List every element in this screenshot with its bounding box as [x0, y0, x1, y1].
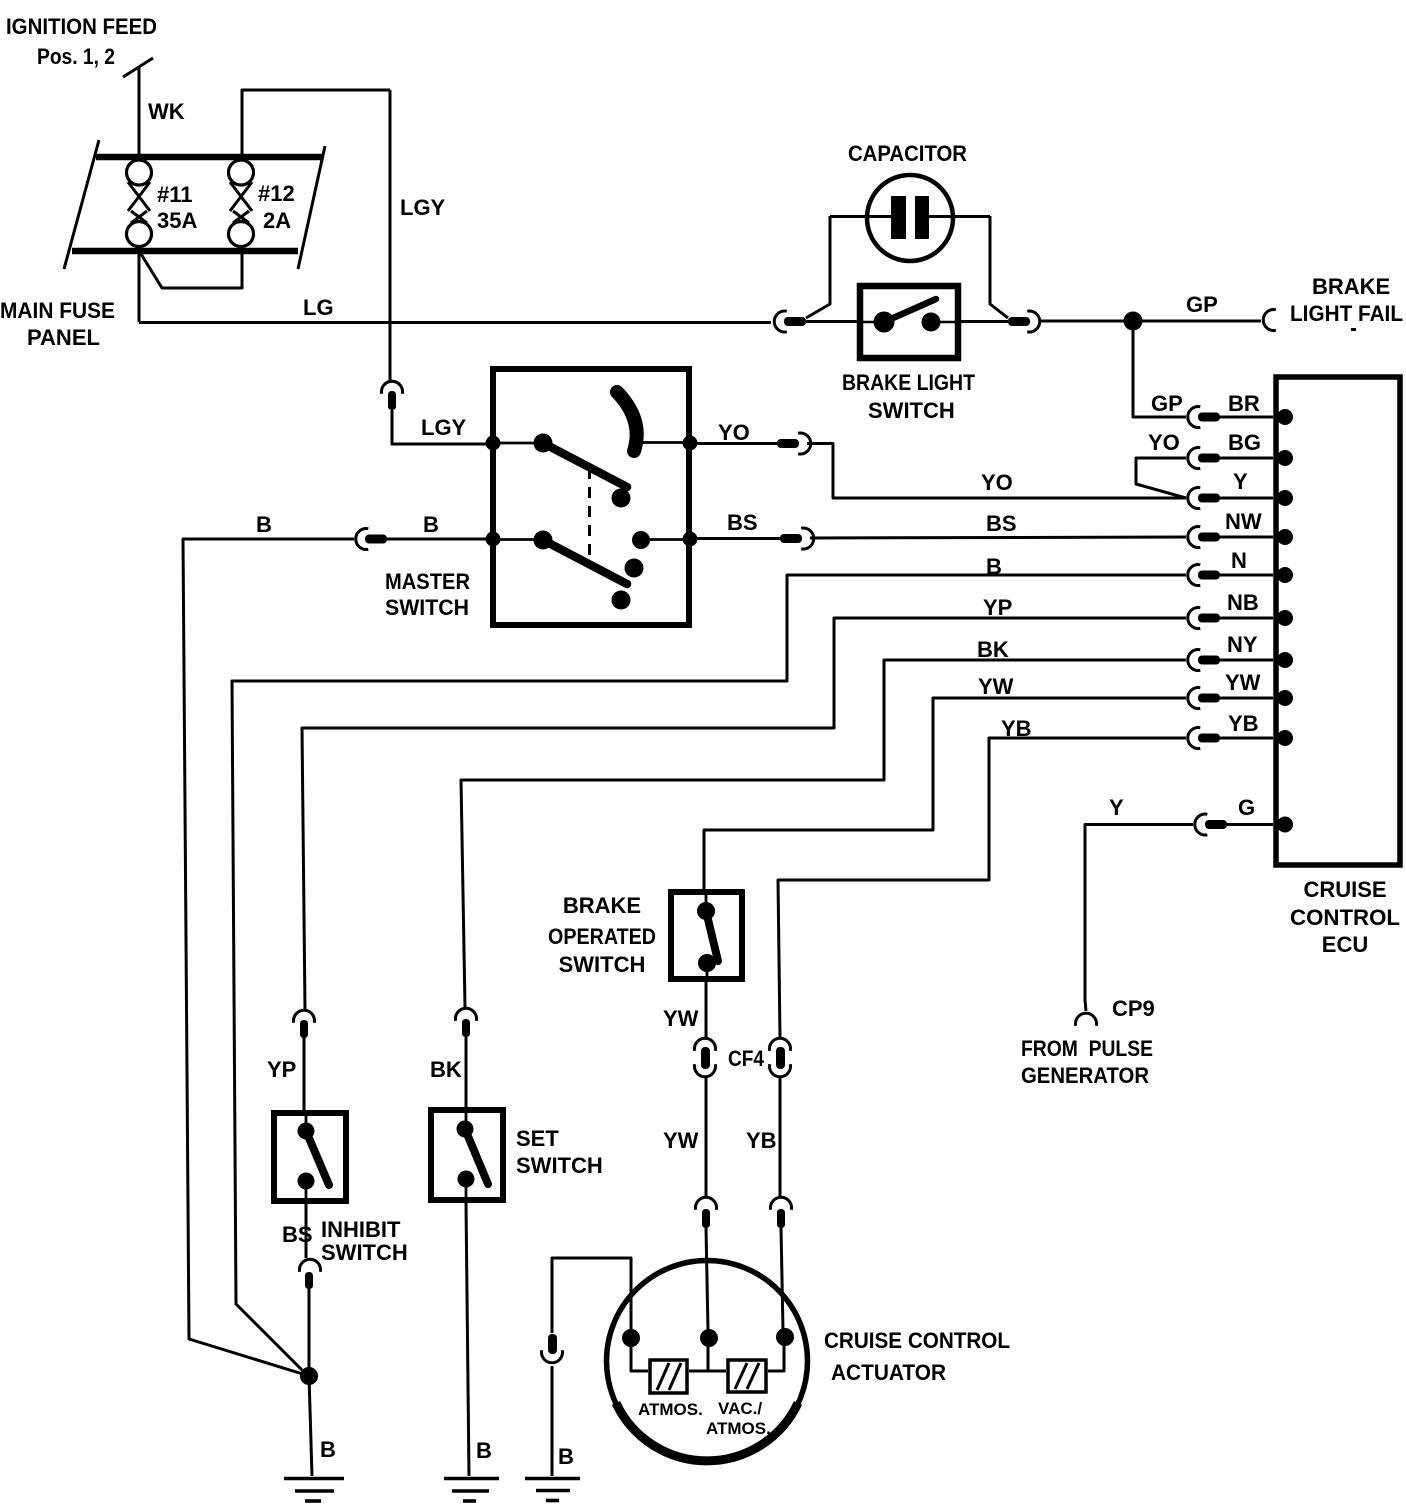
- master switch box: [493, 369, 689, 625]
- actuator right pin: [776, 1328, 794, 1346]
- connector left of brake light switch: [774, 311, 806, 332]
- svg-text:YP: YP: [983, 595, 1012, 620]
- stray period mark: [1351, 328, 1356, 331]
- wire WK vertical: [138, 66, 141, 154]
- svg-text:B: B: [558, 1444, 574, 1469]
- main fuse panel bottom bar: [72, 248, 298, 255]
- set switch top contact: [457, 1121, 474, 1138]
- svg-text:GP: GP: [1186, 292, 1218, 317]
- node junction GP: [1124, 312, 1143, 331]
- connector on actuator ground wire: [542, 1334, 563, 1363]
- svg-text:ATMOS.: ATMOS.: [638, 1400, 703, 1419]
- wire from brake light switch: [958, 320, 1008, 323]
- svg-text:SWITCH: SWITCH: [321, 1240, 408, 1265]
- ground set: [444, 1479, 499, 1502]
- wire LGY to master switch: [392, 410, 490, 444]
- fuse 12 bottom circle: [229, 222, 254, 247]
- wire BK down to set switch: [465, 1037, 468, 1110]
- wire to ground junction: [308, 1289, 311, 1374]
- svg-text:NY: NY: [1227, 632, 1258, 657]
- set switch inner wires: [465, 1110, 468, 1203]
- ECU connector row G: [1195, 814, 1293, 835]
- wire YW to actuator: [705, 1078, 708, 1196]
- brake operated switch box: [671, 892, 742, 979]
- svg-text:CRUISE: CRUISE: [1303, 877, 1386, 902]
- actuator middle pin: [700, 1329, 718, 1347]
- inhibit switch arm: [306, 1131, 329, 1185]
- master switch rotor arc: [617, 392, 637, 451]
- svg-text:BR: BR: [1228, 391, 1260, 416]
- connector on YP wire: [294, 1010, 315, 1038]
- connector on LGY wire: [382, 381, 403, 410]
- svg-text:LGY: LGY: [400, 195, 446, 220]
- fuse bottom jumper wire: [141, 254, 242, 288]
- ECU box: [1276, 377, 1400, 865]
- solenoid VAC/ATMOS box: [728, 1360, 766, 1392]
- svg-text:BS: BS: [727, 510, 758, 535]
- svg-text:MASTER: MASTER: [385, 569, 470, 594]
- wire YW into actuator: [706, 1228, 708, 1330]
- master switch bottom right inner wire: [641, 538, 690, 541]
- connector right of brake light switch: [1008, 311, 1040, 332]
- master switch bottom-right contact: [683, 532, 698, 547]
- ECU connector row YW: [1188, 688, 1293, 709]
- svg-text:B: B: [320, 1437, 336, 1462]
- brake operated switch arm: [706, 911, 718, 961]
- fuse 11 top circle: [127, 160, 152, 185]
- svg-text:ACTUATOR: ACTUATOR: [831, 1360, 946, 1385]
- inhibit switch inner wires: [305, 1113, 308, 1204]
- connector on YW at actuator: [696, 1197, 717, 1228]
- svg-text:MAIN FUSE: MAIN FUSE: [0, 298, 115, 323]
- svg-text:BRAKE: BRAKE: [563, 893, 641, 918]
- fuse 12 element: [230, 182, 252, 223]
- ECU connector row BG: [1188, 448, 1293, 469]
- wire to brake light switch: [806, 320, 860, 323]
- ground inhibit: [284, 1479, 344, 1502]
- set switch bottom contact: [458, 1171, 475, 1188]
- svg-text:G: G: [1238, 795, 1255, 820]
- brake operated switch bottom contact: [698, 954, 716, 972]
- svg-text:ATMOS.: ATMOS.: [706, 1419, 771, 1438]
- master switch top inner wire: [493, 442, 543, 445]
- svg-text:B: B: [986, 554, 1002, 579]
- connector on BK wire: [456, 1008, 477, 1037]
- fuse 12 top circle: [229, 160, 254, 185]
- ECU connector row BR: [1188, 407, 1293, 428]
- svg-text:YB: YB: [1001, 716, 1032, 741]
- svg-text:LG: LG: [303, 295, 334, 320]
- brake light switch right contact: [922, 313, 941, 332]
- svg-text:Pos. 1, 2: Pos. 1, 2: [37, 44, 115, 69]
- wire Y to pulse generator: [1085, 825, 1193, 1012]
- svg-text:BK: BK: [430, 1057, 462, 1082]
- ground actuator: [525, 1479, 580, 1501]
- svg-text:YO: YO: [1148, 430, 1180, 455]
- master switch top right inner wire: [641, 441, 690, 444]
- master switch bottom inner contact: [534, 531, 553, 550]
- master switch dashed link: [588, 468, 591, 560]
- svg-text:SWITCH: SWITCH: [516, 1153, 603, 1178]
- svg-text:2A: 2A: [263, 208, 291, 233]
- svg-text:LIGHT FAIL: LIGHT FAIL: [1290, 301, 1403, 326]
- connector brake light fail: [1263, 310, 1276, 331]
- svg-text:YB: YB: [1228, 711, 1259, 736]
- svg-text:YO: YO: [981, 470, 1013, 495]
- wire to ground: [551, 1366, 554, 1476]
- actuator left pin wire: [631, 1337, 648, 1371]
- wire GP down to ECU: [1133, 321, 1186, 417]
- main fuse panel top bar: [96, 154, 323, 161]
- master switch bottom-left contact: [486, 532, 501, 547]
- actuator right pin wire: [768, 1337, 784, 1371]
- brake light switch box: [860, 286, 958, 358]
- master switch bottom mid contact: [632, 531, 650, 549]
- wire YW row to brake operated switch: [704, 698, 1186, 892]
- master switch bottom inner wire: [493, 538, 543, 541]
- svg-text:Y: Y: [1109, 795, 1124, 820]
- connector on YB at actuator: [771, 1197, 792, 1228]
- inhibit switch top contact: [298, 1123, 315, 1140]
- svg-text:B: B: [476, 1438, 492, 1463]
- svg-text:NW: NW: [1225, 509, 1262, 534]
- svg-text:ECU: ECU: [1322, 932, 1368, 957]
- ECU connector row NW: [1188, 527, 1293, 548]
- wire YB into actuator: [781, 1228, 783, 1330]
- svg-text:YW: YW: [663, 1128, 699, 1153]
- cruise control actuator circle: [607, 1261, 808, 1462]
- wire YO fork to BG and Y: [1136, 458, 1186, 498]
- svg-text:PANEL: PANEL: [27, 325, 100, 350]
- svg-text:Y: Y: [1233, 469, 1248, 494]
- wire junction to ground: [309, 1376, 312, 1476]
- wire LG: [139, 321, 771, 324]
- set switch arm: [465, 1129, 488, 1184]
- wire B row to ECU N: [232, 575, 1186, 1374]
- fuse 11 bottom circle: [127, 222, 152, 247]
- wire YP row to ECU NB: [302, 618, 1186, 1009]
- wire YB row down: [778, 738, 1186, 1037]
- svg-text:YW: YW: [978, 674, 1014, 699]
- svg-text:IGNITION FEED: IGNITION FEED: [6, 14, 157, 39]
- svg-text:35A: 35A: [157, 208, 197, 233]
- svg-text:SET: SET: [516, 1126, 559, 1151]
- wire YP down to inhibit switch: [303, 1037, 306, 1110]
- capacitor C1: [867, 175, 953, 261]
- master switch top-left contact: [486, 436, 501, 451]
- ignition feed arrow: [123, 58, 153, 77]
- main fuse panel right slant: [298, 146, 325, 269]
- svg-text:GP: GP: [1151, 391, 1183, 416]
- set switch box: [431, 1110, 503, 1200]
- brake light switch inner wire right: [940, 321, 955, 324]
- master switch bottom arm: [543, 540, 627, 584]
- master switch bottom arm ball: [612, 591, 631, 610]
- svg-text:B: B: [423, 512, 439, 537]
- capacitor loop right: [990, 216, 1008, 318]
- svg-text:YP: YP: [267, 1057, 296, 1082]
- svg-text:VAC./: VAC./: [718, 1399, 762, 1418]
- svg-text:YW: YW: [663, 1006, 699, 1031]
- fuse 11 element: [128, 182, 150, 223]
- wire GP to brake light fail: [1040, 320, 1261, 323]
- brake operated switch top contact: [697, 902, 715, 920]
- connector CF4 left: [695, 1038, 716, 1076]
- svg-text:GENERATOR: GENERATOR: [1021, 1063, 1149, 1088]
- svg-text:LGY: LGY: [421, 415, 467, 440]
- wire BS below inhibit switch: [305, 1204, 308, 1258]
- ECU connector row N: [1188, 565, 1293, 586]
- svg-text:SWITCH: SWITCH: [868, 398, 955, 423]
- wire BK row to ECU NY: [461, 660, 1186, 1007]
- actuator left pin: [622, 1329, 640, 1347]
- inhibit switch box: [274, 1113, 346, 1201]
- capacitor wire right: [927, 215, 990, 218]
- svg-text:BG: BG: [1228, 430, 1261, 455]
- svg-text:WK: WK: [148, 99, 185, 124]
- connector CP9: [1076, 1013, 1097, 1026]
- brake light switch inner wire left: [863, 321, 875, 324]
- svg-text:N: N: [1231, 548, 1247, 573]
- svg-text:CP9: CP9: [1112, 996, 1155, 1021]
- master switch top-right contact: [683, 436, 698, 451]
- connector on YO wire: [777, 433, 811, 454]
- svg-text:CONTROL: CONTROL: [1290, 905, 1400, 930]
- svg-text:CF4: CF4: [728, 1046, 765, 1071]
- inhibit switch bottom contact: [298, 1173, 315, 1190]
- svg-text:OPERATED: OPERATED: [548, 924, 656, 949]
- master switch top arm ball: [612, 489, 631, 508]
- svg-text:YW: YW: [1225, 670, 1261, 695]
- ECU connector row NB: [1188, 608, 1293, 629]
- wire B to bottom left: [183, 539, 354, 1375]
- svg-text:SWITCH: SWITCH: [559, 952, 646, 977]
- svg-text:BRAKE: BRAKE: [1312, 274, 1390, 299]
- svg-text:NB: NB: [1227, 590, 1259, 615]
- wire set switch to ground: [466, 1203, 469, 1476]
- connector on BS wire below inhibit: [300, 1259, 321, 1289]
- wire fuse11 to LG: [138, 254, 141, 322]
- main fuse panel left slant: [64, 140, 99, 269]
- wire YO to ECU Y pin: [807, 444, 1186, 499]
- connector on BS wire: [780, 528, 814, 549]
- svg-text:BS: BS: [986, 511, 1017, 536]
- svg-text:YO: YO: [718, 420, 750, 445]
- ECU connector row NY: [1188, 650, 1293, 671]
- wire actuator to left ground branch: [552, 1258, 631, 1337]
- svg-text:BRAKE LIGHT: BRAKE LIGHT: [842, 370, 975, 395]
- node ground junction: [300, 1367, 318, 1385]
- svg-text:BK: BK: [977, 637, 1009, 662]
- svg-text:CAPACITOR: CAPACITOR: [848, 141, 967, 166]
- svg-text:YB: YB: [746, 1128, 777, 1153]
- wire YO from master switch: [690, 442, 777, 445]
- actuator bottom thick rim: [616, 1403, 798, 1461]
- wire YB to actuator: [779, 1078, 782, 1196]
- svg-text:B: B: [256, 512, 272, 537]
- wire B left of master switch: [387, 538, 490, 541]
- svg-text:CRUISE CONTROL: CRUISE CONTROL: [824, 1328, 1010, 1353]
- brake operated switch inner wires: [706, 892, 707, 982]
- master switch bottom aux contact: [625, 559, 644, 578]
- ECU connector row Y: [1188, 488, 1293, 509]
- svg-text:INHIBIT: INHIBIT: [321, 1217, 401, 1242]
- actuator middle pin wire: [689, 1337, 726, 1371]
- wire LGY vertical: [389, 90, 392, 380]
- master switch top arm: [543, 443, 627, 487]
- svg-text:FROM PULSE: FROM PULSE: [1021, 1036, 1153, 1061]
- wire YW below brake operated switch: [705, 982, 708, 1037]
- brake light switch left contact: [874, 312, 895, 333]
- svg-text:BS: BS: [282, 1222, 313, 1247]
- connector on B wire: [356, 529, 387, 550]
- brake light switch arm: [884, 299, 936, 322]
- svg-text:#12: #12: [258, 181, 295, 206]
- wire BS from master switch: [690, 537, 780, 540]
- master switch top inner contact: [534, 434, 553, 453]
- capacitor loop left: [806, 216, 830, 318]
- svg-text:#11: #11: [157, 182, 193, 207]
- solenoid ATMOS box: [650, 1360, 687, 1393]
- wire fuse12 to LGY link: [242, 90, 390, 154]
- wire BS to ECU NW pin: [810, 537, 1186, 538]
- ECU connector row YB: [1188, 728, 1293, 749]
- capacitor wire left: [830, 215, 893, 218]
- svg-text:SWITCH: SWITCH: [385, 595, 469, 620]
- connector CF4 right: [770, 1038, 791, 1076]
